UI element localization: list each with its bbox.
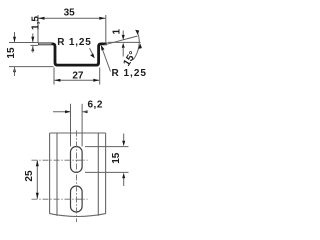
rail bottom extension line (left) [9,66,54,68]
dim 35 arrow right [99,17,105,20]
dim 27 arrow left [54,79,60,82]
angle arc arrowhead top (on slanted line) [135,30,139,35]
dim 1,5 upper arrow [31,37,34,42]
dim 15 lower arrow [122,173,125,178]
svg-text:15: 15 [111,152,122,164]
dim 15 lower shaft [123,178,125,186]
dim 1,5 lower arrow shaft [32,46,34,53]
dim 27 extension line right [99,68,101,85]
strip top edge [50,132,106,134]
dim 1 lower arrow [122,43,125,48]
vertical center line (dash-dot) [75,131,77,223]
radius leader (bottom) to flange inner corner [103,50,111,72]
dim 1 lower shaft [122,47,124,57]
dim 1 upper shaft [122,31,124,37]
strip left edge [49,133,51,214]
dim 6,2 extension line left (slot edge) [70,104,72,147]
dim 35 arrow left [39,17,45,20]
dim 25 arrow bottom [36,193,39,199]
dim 15 dimension line upper [14,32,16,42]
svg-text:35: 35 [64,8,76,19]
dim 27 dimension line [54,79,99,81]
angle arc 15 deg [133,30,139,60]
dim 6,2 dimension line right segment [82,111,87,113]
rail profile (cross-section, hat shape) [38,44,107,65]
strip right edge [105,133,107,214]
flange plane reference line (horizontal) [108,41,141,43]
dim 15 upper shaft [123,134,125,142]
svg-text:25: 25 [24,170,35,182]
svg-text:6,2: 6,2 [88,99,103,110]
svg-text:1: 1 [112,28,123,34]
radius leader arrowhead (bottom) [101,45,105,51]
svg-text:1,5: 1,5 [31,16,42,30]
slot 2 (oblong hole) [71,186,83,212]
dim 15 (slot length) bottom extension line [85,171,129,173]
dim 6,2 arrow left [65,110,70,113]
radius leader (top) to inner corner [90,48,94,56]
dim 27 extension line left [53,68,55,85]
svg-text:R 1,25: R 1,25 [57,37,91,48]
dim 1,5 lower arrow [31,46,34,51]
flange sheet gap highlight left [39,43,52,45]
dim 15 dimension line lower [14,67,16,76]
dim 25 arrow top [36,160,39,166]
radius leader arrowhead (top) [90,54,95,59]
dim 1,5 upper arrow shaft [32,34,34,42]
dim 35 extension line right [105,15,107,42]
svg-text:15: 15 [6,47,17,59]
strip fold line left [56,133,58,216]
dim 27 arrow right [93,79,99,82]
dim 15 (slot length) top extension line [85,146,129,148]
strip bottom break (curved) [50,214,106,217]
flange bottom surface extension line (left) [31,44,39,46]
svg-text:R 1,25: R 1,25 [112,68,147,79]
lip plane reference line (15 deg slanted) [105,36,138,45]
dim 35 extension line left [37,15,39,42]
strip fold line right [97,133,99,216]
dim 15 upper arrow [122,141,125,146]
dim 6,2 dimension line left segment [53,111,70,113]
slot 1 (oblong hole) [71,147,83,173]
flange top surface extension line (left) [9,42,38,44]
dim 15 lower arrow [13,67,16,72]
dim 15 upper arrow [13,37,16,42]
dim 35 dimension line [39,17,106,19]
angle arc arrowhead bottom (on flange plane line) [138,44,142,49]
slot1 horizontal center line (dash-dot) [32,159,88,161]
dim 1 upper arrow [122,35,125,40]
dim 25 dimension line [36,160,38,199]
dim 6,2 extension line right (slot edge) [81,104,83,147]
dim 6,2 arrow right [82,110,87,113]
svg-text:27: 27 [72,71,84,82]
slot2 horizontal center line (dash-dot) [32,198,88,200]
